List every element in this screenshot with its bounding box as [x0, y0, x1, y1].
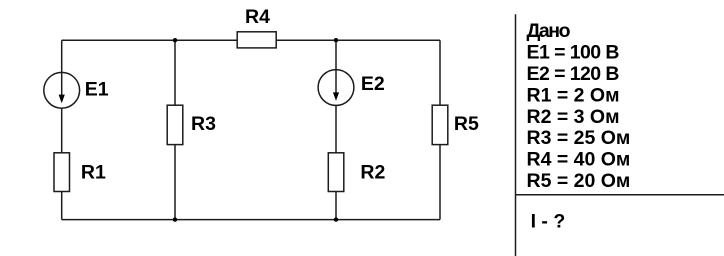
svg-text:R3 = 25 Ом: R3 = 25 Ом: [527, 127, 631, 149]
resistor R2: [328, 153, 344, 192]
wire E2 branch: [335, 40, 337, 219]
svg-text:R1: R1: [81, 161, 106, 183]
node junction bottom middle: [173, 217, 177, 221]
node junction top E2: [334, 38, 338, 42]
svg-text:E2 = 120 В: E2 = 120 В: [527, 63, 620, 85]
resistor R1: [54, 153, 70, 192]
wire right branch: [439, 40, 441, 219]
divider horizontal line of data panel: [516, 194, 724, 196]
svg-text:E2: E2: [361, 73, 385, 95]
svg-text:R2: R2: [360, 161, 385, 183]
svg-text:R4 = 40 Ом: R4 = 40 Ом: [527, 149, 631, 171]
svg-text:R4: R4: [245, 6, 270, 28]
resistor R3: [167, 105, 183, 144]
wire top rail: [62, 39, 440, 41]
resistor R4: [237, 32, 276, 48]
wire bottom rail: [62, 219, 440, 221]
svg-text:I - ?: I - ?: [531, 210, 566, 232]
svg-text:R5 = 20 Ом: R5 = 20 Ом: [527, 170, 631, 192]
svg-text:R5: R5: [454, 113, 479, 135]
svg-text:Дано: Дано: [527, 20, 571, 42]
svg-text:E1: E1: [85, 79, 109, 101]
wire middle branch: [174, 40, 176, 219]
divider vertical line of data panel: [515, 14, 517, 256]
wire left branch: [61, 40, 63, 219]
resistor R5: [432, 105, 448, 144]
node junction bottom E2: [334, 217, 338, 221]
svg-text:R1 = 2 Ом: R1 = 2 Ом: [527, 84, 620, 106]
source E2: [318, 70, 354, 106]
node junction top middle: [173, 38, 177, 42]
source E1: [44, 72, 80, 108]
svg-text:R2 = 3 Ом: R2 = 3 Ом: [527, 106, 620, 128]
svg-text:E1 = 100 В: E1 = 100 В: [527, 42, 620, 64]
svg-text:R3: R3: [191, 113, 216, 135]
